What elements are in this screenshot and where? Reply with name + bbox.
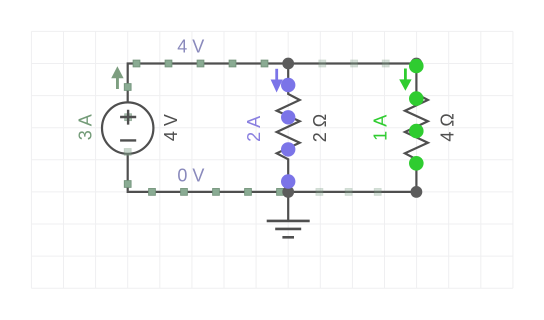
current arrow down at 4ohm (1A) [399, 69, 411, 91]
junction dot top right under charge [411, 58, 423, 70]
wire: bottom 0V rail, middle node to right branch [288, 191, 416, 193]
charge square on left vertical wire lower [124, 181, 131, 188]
junction dot bottom right [411, 186, 423, 198]
svg-text:0 V: 0 V [177, 166, 204, 186]
node B junction dot (0V node, middle bottom) [282, 186, 294, 198]
svg-text:4 V: 4 V [161, 114, 181, 141]
svg-text:4 V: 4 V [177, 36, 204, 56]
current arrow down at 2ohm (2A) [271, 69, 283, 93]
resistor R1 2ohm (middle branch) [277, 64, 300, 192]
source minus sign [120, 139, 136, 141]
pale charge squares on top-right wire (1A) [319, 60, 389, 67]
svg-text:3 A: 3 A [76, 114, 96, 140]
wire: top net from source to node at 4V [128, 64, 289, 103]
green charge dots on 4ohm branch (1A) [409, 59, 424, 171]
source V1 (3A / 4V) circle with plus-minus [102, 102, 153, 153]
node A junction dot (4V node, middle top) [282, 58, 294, 70]
charge squares on top-left wire (3A) [133, 60, 268, 67]
svg-text:1 A: 1 A [371, 115, 391, 141]
svg-text:4 Ω: 4 Ω [438, 113, 458, 141]
resistor R2 4ohm (right branch) [405, 64, 428, 192]
ground [267, 192, 310, 237]
wire: source bottom to 0V rail [128, 154, 289, 192]
svg-text:2 A: 2 A [244, 116, 264, 142]
wire: top net from middle node to right resistor [288, 62, 416, 64]
source plus sign [120, 110, 136, 125]
pale charge squares on bottom-right wire (1A) [316, 189, 381, 196]
charge square on left vertical wire upper [124, 84, 131, 91]
svg-text:2 Ω: 2 Ω [310, 114, 330, 142]
charge dot (square) inside source, lower [124, 149, 131, 156]
charge squares on bottom-left wire (3A) [149, 189, 284, 196]
charge dot (square) inside source, upper [125, 114, 132, 121]
grid (decorative) [31, 31, 513, 288]
current arrow up at source (3A) [111, 66, 123, 89]
purple charge dots on 2ohm branch (2A) [281, 78, 295, 189]
